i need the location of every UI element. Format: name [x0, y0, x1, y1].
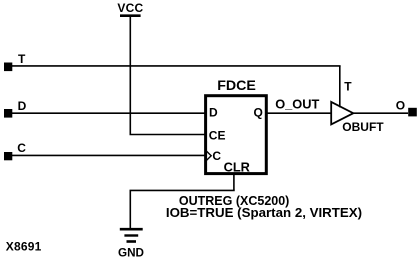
- buffer OBUFT triangle: [331, 102, 353, 125]
- wire OBUFT to O: [353, 112, 408, 114]
- svg-text:O_OUT: O_OUT: [275, 97, 319, 112]
- input terminal D: [4, 109, 12, 118]
- wire CLR horizontal: [130, 189, 235, 191]
- wire VCC to CE horizontal: [130, 134, 207, 136]
- svg-text:X8691: X8691: [6, 240, 42, 254]
- power symbol VCC bar: [120, 14, 141, 17]
- input terminal C: [4, 152, 12, 160]
- svg-text:FDCE: FDCE: [217, 78, 256, 94]
- output terminal O: [408, 108, 417, 117]
- wire T horizontal: [12, 65, 341, 67]
- wire VCC vertical: [129, 16, 131, 135]
- wire Q to OBUFT: [267, 112, 332, 114]
- wire CLR vertical from box: [233, 174, 235, 191]
- svg-text:CE: CE: [209, 128, 226, 142]
- svg-text:O: O: [396, 99, 405, 113]
- wire D horizontal: [12, 112, 206, 114]
- svg-text:T: T: [344, 80, 352, 94]
- ground GND bar 3: [127, 240, 137, 243]
- ground GND bar 1: [120, 228, 143, 231]
- input terminal T: [4, 63, 12, 72]
- svg-text:VCC: VCC: [117, 1, 143, 15]
- svg-text:C: C: [212, 149, 221, 163]
- svg-text:Q: Q: [254, 106, 263, 120]
- wire C horizontal: [12, 154, 206, 156]
- svg-text:D: D: [209, 106, 218, 120]
- svg-text:OBUFT: OBUFT: [342, 120, 384, 134]
- svg-text:D: D: [18, 99, 27, 113]
- ground GND bar 2: [124, 234, 138, 236]
- flip-flop FDCE body: [206, 96, 267, 174]
- svg-text:T: T: [18, 52, 26, 66]
- svg-text:GND: GND: [118, 247, 144, 260]
- svg-text:IOB=TRUE (Spartan 2, VIRTEX): IOB=TRUE (Spartan 2, VIRTEX): [166, 205, 362, 220]
- wire down to GND: [129, 190, 131, 228]
- wire T vertical to OBUFT: [339, 66, 341, 107]
- svg-text:CLR: CLR: [224, 159, 250, 174]
- svg-text:C: C: [17, 141, 26, 155]
- pin C clock triangle: [207, 151, 212, 160]
